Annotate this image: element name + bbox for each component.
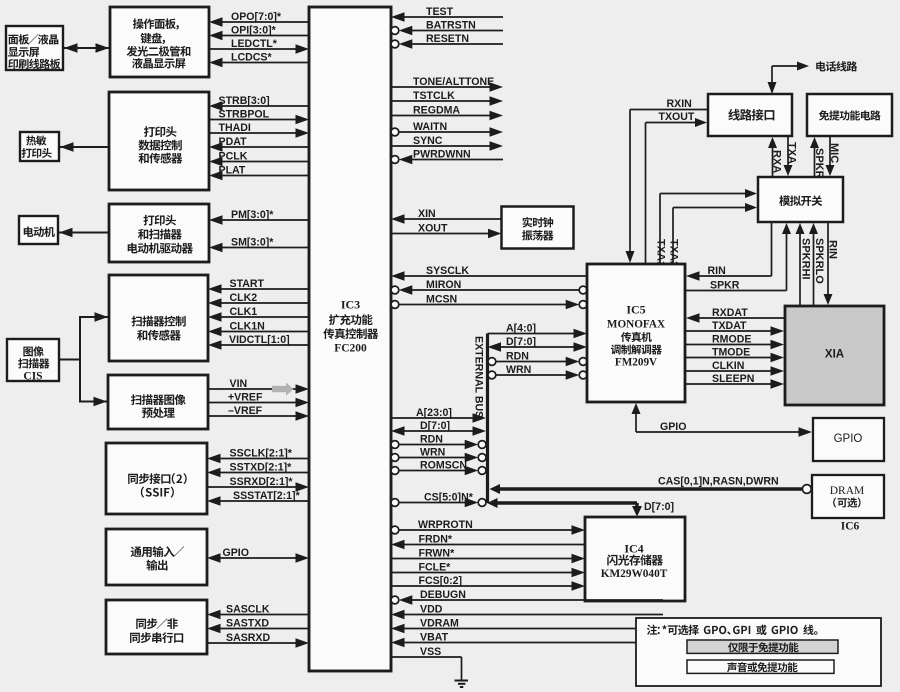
wire CS[5:0]N* [391,499,399,507]
block IC5 MONOFAX fax modem FM209V [587,264,685,402]
wire FCLE* [572,568,586,577]
svg-text:STRB[3:0]: STRB[3:0] [219,95,270,107]
wire CLKIN [685,370,773,372]
wire RXA [772,147,774,177]
wire START [208,284,222,294]
svg-text:SSSTAT[2:1]*: SSSTAT[2:1]* [233,490,301,502]
svg-text:CLK1: CLK1 [230,306,258,318]
wire TEST [391,12,405,22]
svg-text:TSTCLK: TSTCLK [413,90,455,102]
svg-text:PM[3:0]*: PM[3:0]* [231,209,274,221]
svg-text:SSTXD[2:1]*: SSTXD[2:1]* [230,462,293,474]
svg-text:SLEEPN: SLEEPN [712,373,754,385]
wire –VREF [296,411,310,421]
svg-text:FRWN*: FRWN* [419,548,456,560]
svg-text:LEDCTL*: LEDCTL* [231,38,278,50]
wire TSTCLK [490,96,504,106]
svg-text:GPIO: GPIO [660,421,687,433]
wire VDD [391,610,405,619]
wire RXDAT [686,313,700,323]
svg-text:MIC: MIC [828,143,840,163]
wire A[23:0] [473,413,487,423]
svg-text:RMODE: RMODE [712,334,751,346]
wire VDRAM [391,624,405,633]
wire SLEEPN [685,383,773,385]
wire MIRON [391,286,399,294]
external bus vertical line [486,334,489,504]
svg-text:SPKRHI: SPKRHI [800,238,812,280]
svg-text:TXDAT: TXDAT [712,320,747,332]
wire DEBUGN [391,596,399,604]
svg-text:VBAT: VBAT [420,632,449,644]
svg-text:IC4: IC4 [624,542,643,556]
svg-text:GPIO: GPIO [834,433,863,445]
wire TMODE [685,357,773,359]
legend speakerphone-only (gray) [687,640,838,653]
wire VSS [391,656,462,658]
svg-text:VIDCTL[1:0]: VIDCTL[1:0] [229,334,290,346]
wire VBAT [391,638,405,647]
wire STRB[3:0] [209,101,223,111]
wire RXIN [630,109,708,111]
svg-text:RIN: RIN [708,265,726,277]
wire XIN [391,214,405,224]
svg-text:START: START [230,278,265,290]
svg-text:VIN: VIN [230,378,248,390]
wire FCS[0:2] [572,581,586,591]
wire WAITN [391,128,399,136]
note text [647,625,818,635]
wire SSTXD[2:1]* [207,468,221,477]
wire SSSTAT[2:1]* [207,496,221,506]
wire SYSCLK [391,271,405,281]
wire SSCLK[2:1]* [207,454,221,463]
svg-text:WRPROTN: WRPROTN [418,519,473,531]
svg-text:+VREF: +VREF [228,392,263,404]
block GPIO [813,418,884,461]
svg-text:CAS[0,1]N,RASN,DWRN: CAS[0,1]N,RASN,DWRN [658,476,779,488]
svg-text:SSRXD[2:1]*: SSRXD[2:1]* [230,476,294,488]
svg-text:PDAT: PDAT [219,136,248,148]
svg-text:STRBPOL: STRBPOL [219,109,270,121]
block synchronous interface (2) SSIF [106,443,207,514]
wire to telephone line [771,66,773,92]
svg-text:IC6: IC6 [841,521,860,533]
svg-text:CLK1N: CLK1N [230,321,265,333]
svg-text:SSCLK[2:1]*: SSCLK[2:1]* [230,448,293,460]
gray direction arrow on VIN [272,383,294,396]
svg-text:ROMSCN: ROMSCN [420,460,467,472]
wire SSRXD[2:1]* [296,482,310,492]
wire TXA2 [672,208,674,265]
block XIA [785,306,884,405]
svg-text:GPIO: GPIO [223,547,250,559]
wire CAS[0,1]N,RASN,DWRN thick line to DRAM [490,484,501,494]
svg-text:D[7:0]: D[7:0] [644,501,674,513]
wire TXDAT [685,330,773,332]
wire SM[3:0]* [209,243,223,252]
wire MCSN [391,301,399,309]
wire PWRDWNN [391,156,399,164]
block IC4 flash memory KM29W040T [585,517,685,601]
wire PLAT [209,171,223,180]
svg-text:OPI[3:0]*: OPI[3:0]* [231,25,277,37]
wire BATRSTN [391,27,399,35]
wire VIDCTL[1:0] [208,340,222,350]
legend voice or speakerphone [687,660,834,673]
svg-text:SPKR: SPKR [710,280,740,292]
ground symbol [455,680,469,682]
block general purpose input/output [106,529,207,585]
svg-text:–VREF: –VREF [228,405,263,417]
svg-text:FCLE*: FCLE* [419,562,452,574]
svg-text:D[7:0]: D[7:0] [506,336,536,348]
wire ROMSCN IC3-bus [391,467,399,475]
svg-text:IC5: IC5 [626,303,645,317]
wire SPKRHI [799,233,801,306]
svg-text:VDD: VDD [420,604,443,616]
svg-text:TXA: TXA [786,142,798,164]
block scanner image preprocessing [108,375,208,429]
wire D[7:0] IC3-bus [391,426,405,436]
block real-time clock oscillator [502,207,574,249]
wire TONE/ALTTONE [490,82,504,92]
svg-text:TXOUT: TXOUT [659,111,695,123]
svg-text:WRN: WRN [420,447,445,459]
svg-text:MIRON: MIRON [426,279,461,291]
wire OPO[7:0]* [209,17,223,27]
wire LCDCS* [209,58,223,67]
block print head and scanner motor drivers [109,204,209,262]
wire REGDMA [490,111,504,120]
block IC3 FC200 expanded-function fax controller [309,7,391,671]
svg-text:MCSN: MCSN [426,294,457,306]
svg-text:RESETN: RESETN [426,33,469,45]
svg-text:PWRDWNN: PWRDWNN [413,149,471,161]
wire SPKR IC5 to analog-switch [685,290,787,292]
svg-text:LCDCS*: LCDCS* [231,52,272,64]
note box [636,618,881,686]
wire TXOUT [645,123,647,265]
svg-text:SYNC: SYNC [413,135,443,147]
wire WRPROTN [391,526,399,534]
wire D[7:0] thick line to IC4 [487,498,498,508]
wire motor driver -> motor [58,232,109,234]
block print head data control and sensors [109,92,209,190]
wire TXA [787,136,789,166]
svg-text:DRAM: DRAM [830,485,865,497]
svg-text:KM29W040T: KM29W040T [601,568,668,580]
svg-text:WAITN: WAITN [413,121,447,133]
block thermal print head [20,132,59,161]
svg-text:DEBUGN: DEBUGN [420,589,466,601]
block sync/async serial port [106,600,207,654]
svg-text:CS[5:0]N*: CS[5:0]N* [424,492,474,504]
wire XOUT [488,229,502,238]
svg-text:SM[3:0]*: SM[3:0]* [231,237,274,249]
wire CLK2 [208,298,222,308]
svg-text:EXTERNAL BUS: EXTERNAL BUS [473,336,485,418]
svg-text:IC3: IC3 [341,298,360,312]
svg-text:THADI: THADI [219,122,251,134]
svg-text:SPKRLO: SPKRLO [813,238,825,284]
block DRAM optional [812,475,884,518]
wire SASCLK [207,610,221,619]
wire SASTXD [207,624,221,633]
svg-text:FM209V: FM209V [615,357,657,369]
wire SASRXD [296,638,310,648]
wire GPIO IC5 to GPIO block [635,412,637,432]
svg-text:TMODE: TMODE [712,347,750,359]
svg-text:A[4:0]: A[4:0] [506,323,536,335]
svg-text:MONOFAX: MONOFAX [607,319,665,331]
svg-text:RXIN: RXIN [667,98,692,110]
svg-text:SASTXD: SASTXD [226,618,269,630]
svg-text:TEST: TEST [426,6,454,18]
block scanner control and sensors [109,275,208,361]
wire print head data -> thermal head [59,146,109,148]
svg-text:SPKR: SPKR [813,148,825,179]
svg-text:FC200: FC200 [334,343,367,355]
block analog switch [758,177,843,222]
wire +VREF [296,398,310,407]
svg-text:RIN: RIN [827,240,839,259]
block motor [19,216,58,244]
svg-text:A[23:0]: A[23:0] [416,407,452,419]
svg-text:WRN: WRN [506,364,531,376]
svg-text:TONE/ALTTONE: TONE/ALTTONE [413,76,494,88]
wire MIC [829,136,831,166]
svg-text:OPO[7:0]*: OPO[7:0]* [231,11,282,23]
svg-text:D[7:0]: D[7:0] [420,420,450,432]
block speakerphone function circuit [807,94,892,136]
svg-text:PCLK: PCLK [219,151,248,163]
wire RDN IC3-bus [391,441,399,449]
svg-text:RXDAT: RXDAT [712,307,748,319]
wire WRN bus-IC5 [488,371,496,379]
svg-text:REGDMA: REGDMA [413,105,460,117]
svg-text:XOUT: XOUT [418,223,448,235]
svg-text:FCS[0:2]: FCS[0:2] [419,575,463,587]
wire CIS to scanner blocks [59,359,80,361]
wire VIN [296,384,310,394]
svg-text:RDN: RDN [420,434,443,446]
wire RDN bus-IC5 [488,358,496,366]
svg-text:CLKIN: CLKIN [712,360,744,372]
wire PCLK [209,157,223,166]
svg-text:SASCLK: SASCLK [226,604,270,616]
svg-text:VDRAM: VDRAM [420,618,459,630]
svg-text:PLAT: PLAT [219,165,246,177]
wire RESETN [391,40,399,48]
wire TXA1 [659,194,661,265]
wire PDAT [209,142,223,152]
wire PM[3:0]* [209,215,223,225]
wire OPI[3:0]* [209,31,223,40]
block image scanner CIS [7,339,59,381]
svg-text:RXA: RXA [771,150,783,173]
wire WRN IC3-bus [391,454,399,462]
wire FRDN* [391,540,405,549]
svg-text:XIN: XIN [418,208,436,220]
svg-text:SYSCLK: SYSCLK [426,265,469,277]
wire STRBPOL [296,115,310,124]
wire LEDCTL* [296,44,310,54]
svg-text:FRDN*: FRDN* [419,534,453,546]
wire A[4:0] [574,329,588,338]
svg-text:CLK2: CLK2 [230,292,258,304]
wire panel PCB <-> operation panel [63,47,110,49]
svg-text:VSS: VSS [420,646,441,658]
wire CLK1N [208,327,222,336]
block operation panel/keyboard/LED/LCD [110,7,209,77]
block line interface [708,94,792,136]
wire SPKRLO [813,233,815,306]
svg-text:CIS: CIS [23,371,42,383]
wire D[7:0] bus-IC5 [488,342,502,352]
wire RIN analog-switch to IC5 [686,271,700,281]
svg-text:BATRSTN: BATRSTN [426,20,476,32]
label telephone line [816,61,857,71]
wire SYNC [490,141,504,151]
wire GPIO [207,553,221,563]
wire RIN analog-switch to XIA [827,222,829,295]
wire SPKR vertical [814,147,816,177]
wire CLK1 [208,312,222,322]
wire RMODE [685,344,773,346]
wire THADI [296,128,310,138]
svg-text:RDN: RDN [506,351,529,363]
block panel/LCD PCB [6,26,63,70]
wire FRWN* [572,554,586,563]
svg-text:XIA: XIA [825,349,844,361]
svg-text:SASRXD: SASRXD [226,632,270,644]
